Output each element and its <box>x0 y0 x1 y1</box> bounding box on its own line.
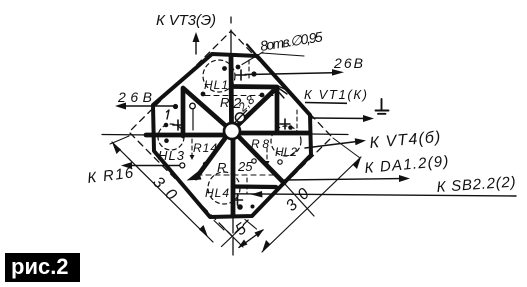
pad dot HL1 left <box>201 92 206 97</box>
pad dot HL3 <box>164 123 169 128</box>
pad dot UR <box>260 93 265 98</box>
pin mark 1 HL3 <box>167 110 170 119</box>
leader HL1 lead dashed <box>248 60 250 80</box>
hole HL3 lead <box>180 163 185 168</box>
leader R8 dashed <box>266 148 268 164</box>
wire K SB2.2(2) <box>234 194 516 196</box>
arrow K DA1.2(9) <box>284 179 404 181</box>
polarity plus HL3 <box>173 120 183 130</box>
hole R14 lead <box>190 103 196 109</box>
board outline octagon <box>153 54 311 217</box>
wire trace left bar <box>146 133 224 138</box>
dashed board blank diamond 30x30 <box>129 31 332 236</box>
svg-text:25: 25 <box>237 159 253 174</box>
label K VT1(K) underline <box>305 102 347 105</box>
polarity plus HL2 <box>280 119 290 129</box>
dimension 5 extension from corner E <box>245 220 257 230</box>
pad dot HL4 right <box>251 205 255 209</box>
pad dot 26V-left end <box>173 104 178 109</box>
svg-text:К VT3(Э): К VT3(Э) <box>156 12 216 29</box>
figure caption black box <box>5 253 80 282</box>
wire trace right bar <box>240 131 310 136</box>
ground symbol <box>376 99 389 114</box>
pad dot 26V-right start <box>251 71 256 76</box>
svg-text:К SB2.2(2): К SB2.2(2) <box>436 174 516 196</box>
svg-text:К VT1(К): К VT1(К) <box>304 87 367 102</box>
svg-text:26В: 26В <box>333 55 363 71</box>
svg-text:HL4: HL4 <box>205 186 229 200</box>
svg-text:HL2: HL2 <box>275 145 297 159</box>
leader 8 holes line <box>242 52 263 65</box>
polarity plus HL4 <box>233 195 243 205</box>
LED HL1 dashed outline <box>203 60 235 92</box>
svg-text:К DA1.2(9): К DA1.2(9) <box>364 153 449 177</box>
svg-text:5: 5 <box>233 220 250 239</box>
hole small near center <box>235 113 244 122</box>
wire dashed jumper under center <box>197 174 273 176</box>
leader R14 dashed <box>192 110 194 131</box>
wire centerline vertical <box>231 17 233 255</box>
wire lower-right arm thin extension <box>284 183 314 216</box>
leader HL2 lead dashed <box>296 110 298 129</box>
svg-text:HL3: HL3 <box>158 148 185 163</box>
arrow K VT4(b) <box>305 141 361 148</box>
wire trace vertical bottom R25 <box>231 139 236 215</box>
pad dot right of R2 trace <box>236 65 241 70</box>
pad dot bottom-left of R25 <box>203 162 207 166</box>
dimension 30 lower-right line <box>262 157 361 252</box>
wire trace lower-left arm <box>196 137 226 178</box>
dimension 30 lower-left extension left <box>110 136 129 144</box>
polarity plus HL1 <box>236 70 246 80</box>
pad fan strokes at UR bar end <box>276 86 289 98</box>
leader HL4 dashed <box>246 178 248 194</box>
wire trace upper-left arm <box>183 88 226 136</box>
hole HL2 lead <box>278 160 282 164</box>
svg-text:R: R <box>220 95 229 110</box>
diamond tip overshoot X <box>222 226 244 248</box>
dimension extension from corner F <box>214 221 224 231</box>
arrow K R16 <box>126 165 180 167</box>
svg-text:К R16: К R16 <box>86 164 134 187</box>
arrow K VT3(Э) <box>195 36 197 54</box>
svg-text:8отв.∅0,95: 8отв.∅0,95 <box>259 28 324 54</box>
svg-text:26В: 26В <box>117 89 152 105</box>
wire trace vertical top R2 <box>229 56 234 124</box>
svg-text:R: R <box>217 160 226 175</box>
svg-text:HL1: HL1 <box>204 78 228 92</box>
wire dashed jumper upper <box>205 95 275 97</box>
hole near R25 <box>252 159 256 163</box>
pad dot below left bar <box>164 138 169 143</box>
hole center Ø2,8 <box>224 123 240 139</box>
pad dot HL2 <box>288 125 293 130</box>
label hole dia 2,8 slash <box>234 110 248 124</box>
pad dot HL1 top <box>222 66 227 71</box>
pad dot HL4 <box>237 204 243 210</box>
svg-text:R8: R8 <box>251 137 269 151</box>
svg-text:R14: R14 <box>193 141 217 155</box>
svg-text:К VT4(б): К VT4(б) <box>369 129 441 152</box>
dimension 5 line <box>239 230 263 248</box>
arrow 26V right <box>245 73 339 75</box>
arrow 26V left <box>120 105 176 107</box>
wire trace lower-right bar <box>233 184 276 189</box>
LED HL2 dashed outline <box>271 126 301 156</box>
wire centerline horizontal <box>102 134 348 135</box>
wire trace lower-right arm <box>239 137 284 183</box>
arrow K VT1(K) <box>312 117 369 120</box>
wire trace upper-right arm <box>233 87 277 132</box>
dimension 30 lower-right extension <box>333 138 360 158</box>
LED HL3 dashed outline <box>158 124 184 150</box>
figure caption text рис.2 <box>11 254 69 280</box>
board outline corner overshoot <box>247 45 257 57</box>
LED HL4 dashed outline <box>208 172 240 204</box>
dimension 30 lower-left line <box>112 142 213 242</box>
